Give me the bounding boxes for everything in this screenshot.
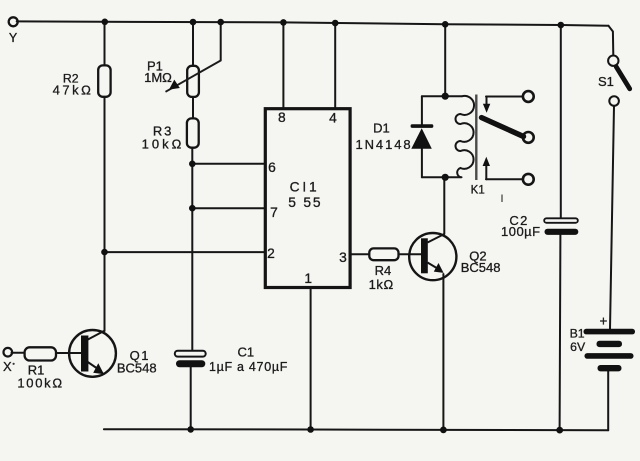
svg-text:B1: B1 bbox=[570, 326, 585, 340]
svg-text:47kΩ: 47kΩ bbox=[53, 83, 94, 98]
svg-text:X: X bbox=[3, 359, 12, 374]
svg-text:K1: K1 bbox=[471, 184, 485, 196]
svg-text:1µF a 470µF: 1µF a 470µF bbox=[209, 360, 288, 374]
svg-text:1N4148: 1N4148 bbox=[356, 137, 413, 152]
svg-text:S1: S1 bbox=[598, 74, 614, 89]
svg-text:BC548: BC548 bbox=[461, 260, 501, 275]
svg-text:CI1: CI1 bbox=[290, 180, 320, 195]
svg-text:7: 7 bbox=[270, 205, 278, 220]
svg-text:Y: Y bbox=[9, 31, 18, 45]
svg-text:100µF: 100µF bbox=[501, 224, 541, 239]
svg-text:8: 8 bbox=[278, 110, 286, 125]
svg-text:4: 4 bbox=[329, 111, 337, 126]
svg-text:6V: 6V bbox=[570, 340, 586, 354]
svg-text:1: 1 bbox=[304, 271, 312, 286]
svg-text:1MΩ: 1MΩ bbox=[144, 70, 172, 85]
svg-text:+: + bbox=[600, 314, 608, 329]
svg-text:D1: D1 bbox=[373, 121, 390, 136]
svg-text:3: 3 bbox=[339, 250, 347, 265]
svg-text:2: 2 bbox=[267, 246, 275, 261]
svg-text:1kΩ: 1kΩ bbox=[369, 277, 394, 292]
svg-text:C1: C1 bbox=[237, 345, 254, 360]
svg-text:100kΩ: 100kΩ bbox=[17, 376, 63, 391]
svg-text:R4: R4 bbox=[375, 263, 392, 278]
svg-text:BC548: BC548 bbox=[117, 360, 157, 375]
svg-text:5 55: 5 55 bbox=[288, 195, 322, 210]
svg-text:6: 6 bbox=[268, 160, 276, 175]
svg-text:10kΩ: 10kΩ bbox=[142, 137, 185, 152]
